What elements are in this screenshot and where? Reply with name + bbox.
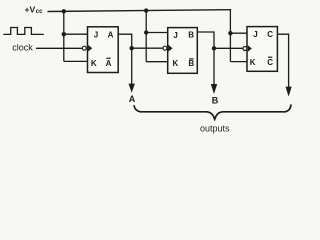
wire Vcc drop to FF3 — [229, 9, 231, 62]
brace outputs — [134, 104, 291, 119]
wire C output — [277, 34, 288, 87]
clock wedge U2 — [169, 45, 173, 52]
svg-text:cc: cc — [36, 9, 43, 15]
flip-flop U2 labels — [173, 30, 195, 68]
svg-text:J: J — [253, 30, 257, 39]
svg-text:J: J — [94, 31, 98, 40]
overbar A1 — [106, 57, 110, 59]
flip-flop U3 labels — [250, 30, 274, 67]
flip-flop U3 box — [247, 27, 277, 72]
junction dot J1 — [62, 32, 66, 36]
svg-text:K: K — [91, 59, 97, 68]
junction dot J2 — [144, 30, 148, 34]
flip-flop U1 labels — [91, 31, 114, 68]
svg-text:K: K — [173, 59, 179, 68]
junction dot B — [212, 46, 216, 50]
svg-text:outputs: outputs — [200, 124, 230, 134]
clock wedge U3 — [248, 45, 252, 52]
flip-flop U1 box — [88, 27, 119, 73]
svg-text:B: B — [212, 96, 219, 106]
svg-text:A: A — [129, 94, 136, 104]
wire K3 input — [230, 61, 247, 63]
junction dot Vcc-FF1 — [62, 9, 66, 13]
svg-text:K: K — [250, 58, 256, 67]
junction dot A — [130, 46, 134, 50]
svg-text:A: A — [106, 59, 112, 68]
clock wedge U1 — [88, 45, 92, 52]
junction dot J3 — [228, 31, 232, 35]
svg-text:clock: clock — [12, 43, 33, 53]
wire Vcc rail — [48, 10, 232, 12]
overbar C3 — [268, 56, 272, 58]
wire B output — [197, 32, 214, 85]
clock bubble U2 — [163, 46, 167, 50]
svg-text:C: C — [267, 58, 273, 67]
wire K2 input — [146, 61, 168, 63]
wire Vcc drop to FF2 — [145, 11, 147, 62]
svg-text:B: B — [188, 30, 194, 39]
arrowhead B — [211, 84, 217, 94]
svg-text:B: B — [188, 59, 194, 68]
wire J2 input — [146, 32, 168, 34]
wire J1 input — [64, 33, 88, 35]
wire J3 input — [230, 32, 247, 34]
svg-text:+V: +V — [25, 5, 36, 15]
clock bubble U1 — [82, 46, 86, 50]
svg-text:C: C — [267, 30, 273, 39]
overbar B2 — [189, 58, 193, 60]
wire clock to FF1 — [36, 47, 82, 49]
wire K1 input — [64, 60, 88, 62]
wire A to clock U2 — [132, 47, 163, 49]
svg-text:J: J — [173, 31, 177, 40]
wire B to clock U3 — [214, 47, 243, 49]
label +Vcc — [25, 5, 44, 16]
svg-text:A: A — [108, 31, 114, 40]
wire Vcc drop to FF1 — [63, 11, 65, 61]
clock bubble U3 — [243, 47, 247, 51]
arrowhead C — [286, 87, 292, 97]
wire A output — [118, 34, 132, 84]
clock waveform — [3, 28, 44, 35]
junction dot Vcc-FF2 — [144, 8, 148, 12]
flip-flop U2 box — [168, 28, 198, 74]
arrowhead A — [129, 84, 135, 93]
